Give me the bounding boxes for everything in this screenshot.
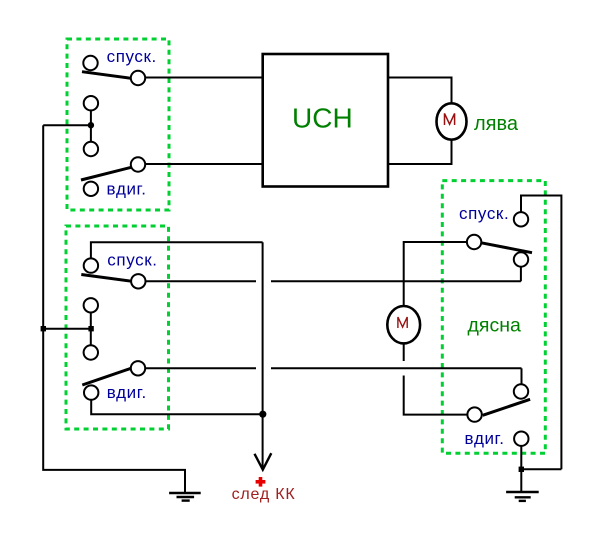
- wire motor M2 minus to S6 pole: [404, 376, 468, 415]
- svg-text:вдиг.: вдиг.: [107, 179, 147, 198]
- wire U1 pin3 to motor M1 plus: [388, 78, 452, 105]
- switch S3: [81, 258, 145, 288]
- svg-text:лява: лява: [474, 113, 519, 135]
- svg-text:вдиг.: вдиг.: [465, 429, 505, 448]
- switch S4: [82, 361, 145, 400]
- junction node center feed: [259, 411, 266, 418]
- dashed group box right switch unit: [442, 181, 545, 454]
- ground right: [506, 492, 539, 501]
- terminal spusk right unit: [514, 212, 528, 226]
- wire motor M2 minus upper segment (hops crossing wire): [403, 343, 405, 361]
- wire S3 throw contact to center feed rail: [91, 242, 263, 258]
- wire drop to S6 throw contact: [521, 368, 523, 384]
- wire vdig terminal to ground node: [520, 446, 522, 492]
- wire left supply rail to ground: [43, 125, 185, 493]
- wire S4 throw contact to center feed node: [91, 400, 263, 414]
- common contact pair box1: [84, 96, 98, 156]
- svg-text:спуск.: спуск.: [107, 47, 157, 66]
- wire U1 pin4 to motor M1 minus: [388, 140, 452, 165]
- switch S1: [82, 56, 145, 85]
- dashed group box left rear switch unit: [66, 226, 169, 429]
- common contact pair box2: [84, 298, 98, 360]
- svg-text:вдиг.: вдиг.: [107, 383, 147, 402]
- control unit U1 box: [263, 54, 388, 187]
- junction node supply rail: [41, 326, 46, 331]
- svg-text:дясна: дясна: [468, 315, 521, 337]
- ground left: [169, 493, 201, 501]
- wire S3 pole to S5 throw, right segment: [271, 280, 521, 282]
- wire S5 pole to motor M2 plus: [404, 242, 467, 306]
- svg-text:спуск.: спуск.: [459, 204, 509, 223]
- wire box1 common to supply rail: [43, 124, 91, 126]
- junction node right ground: [519, 467, 524, 472]
- motor M2: [387, 306, 420, 343]
- wire ground node to right rail: [521, 468, 561, 470]
- switch S5: [467, 235, 532, 267]
- terminal vdig right unit: [514, 432, 528, 446]
- wire S3 pole to S5 throw, left segment: [146, 280, 257, 282]
- wire riser to S5 throw contact: [520, 267, 522, 282]
- junction node box1 common: [88, 122, 94, 128]
- wire S4 pole to S6 throw, left segment: [145, 367, 256, 369]
- plus sign feed polarity: [256, 477, 266, 487]
- wire S4 pole to S6 throw, right segment: [271, 367, 522, 369]
- svg-text:след КК: след КК: [232, 486, 296, 503]
- junction node box2 common: [88, 326, 93, 331]
- motor M1: [437, 103, 467, 139]
- dashed group box left front switch unit: [67, 39, 169, 210]
- switch S6: [467, 384, 530, 422]
- wire center feed rail: [262, 242, 264, 468]
- wire spusk terminal to right rail: [521, 196, 561, 470]
- wire box2 common to supply rail: [43, 328, 91, 330]
- wire S2 pole to U1 pin2: [145, 163, 263, 165]
- svg-text:UCH: UCH: [292, 102, 353, 133]
- wire S1 pole to U1 pin1: [145, 77, 263, 79]
- arrowhead feed source: [255, 453, 272, 470]
- svg-text:спуск.: спуск.: [107, 251, 157, 270]
- switch S2: [81, 157, 145, 196]
